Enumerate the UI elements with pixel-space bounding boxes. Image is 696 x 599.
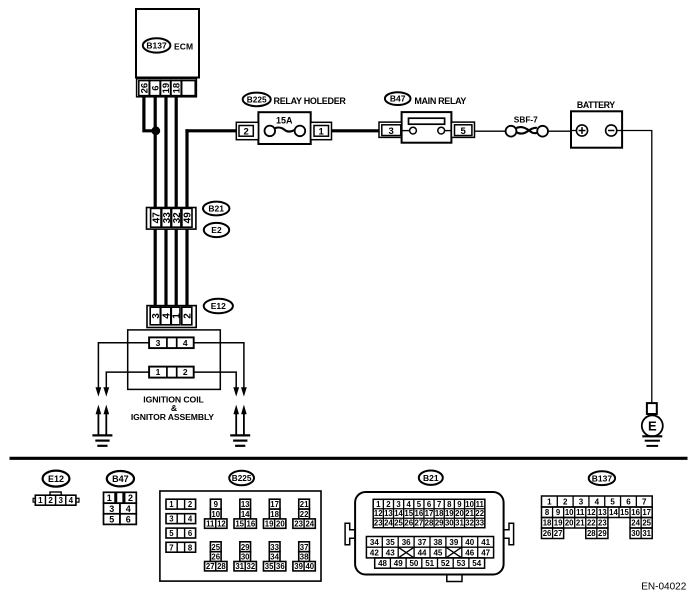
- svg-text:15A: 15A: [276, 115, 293, 125]
- svg-text:6: 6: [150, 85, 161, 90]
- B21 pins 34-47 grid: [366, 537, 493, 558]
- svg-text:E2: E2: [211, 225, 222, 235]
- svg-text:32: 32: [247, 562, 256, 571]
- pin 19: [161, 81, 171, 96]
- svg-text:6: 6: [626, 497, 631, 506]
- svg-text:25: 25: [642, 519, 651, 528]
- label B21: [203, 202, 229, 216]
- footer B21 right tab: [504, 523, 514, 545]
- svg-text:26: 26: [404, 519, 413, 528]
- svg-text:1: 1: [107, 493, 112, 503]
- svg-text:26: 26: [139, 83, 150, 94]
- svg-text:20: 20: [565, 519, 574, 528]
- B225 pins 37-40: [299, 542, 310, 552]
- B225 pins 17-20: [269, 499, 280, 509]
- fuse circle left: [265, 126, 276, 137]
- svg-text:42: 42: [370, 549, 379, 558]
- footer B21 left tab: [345, 523, 355, 545]
- relay contact right: [445, 130, 452, 132]
- svg-text:9: 9: [214, 500, 219, 509]
- svg-text:27: 27: [554, 529, 563, 538]
- B225 pins 13-16: [240, 499, 251, 509]
- svg-text:B21: B21: [423, 473, 439, 483]
- svg-text:3: 3: [396, 500, 401, 509]
- svg-text:6: 6: [126, 515, 131, 525]
- pin 1 of relay holeder: [311, 122, 332, 139]
- svg-text:2: 2: [182, 313, 193, 319]
- svg-text:2: 2: [188, 500, 193, 509]
- svg-text:44: 44: [418, 549, 427, 558]
- wire relay holeder pin1 to main relay pin3: [332, 129, 382, 132]
- svg-text:27: 27: [415, 519, 424, 528]
- svg-text:E12: E12: [48, 474, 64, 484]
- footer label B225: [229, 471, 254, 486]
- svg-text:16: 16: [247, 520, 256, 529]
- empty pin cell: [182, 81, 196, 96]
- footer label B21: [419, 471, 443, 485]
- svg-text:3: 3: [389, 126, 394, 137]
- connector square above E: [647, 403, 657, 414]
- wire coil pin1 to shield left: [106, 372, 149, 388]
- svg-text:49: 49: [183, 212, 194, 224]
- svg-text:23: 23: [294, 520, 303, 529]
- pin 5 of main relay: [451, 122, 474, 137]
- svg-text:30: 30: [241, 553, 250, 562]
- B137 pins 26-31 row: [542, 528, 564, 539]
- wire SBF-7 to battery: [548, 130, 571, 132]
- svg-text:16: 16: [631, 508, 640, 517]
- footer label E12: [43, 471, 70, 487]
- wire battery to ground E: [622, 131, 652, 404]
- pin 32: [172, 208, 181, 227]
- connector label B137: [143, 38, 171, 52]
- pin 26: [139, 81, 149, 96]
- svg-text:2: 2: [386, 500, 391, 509]
- svg-text:9: 9: [457, 500, 462, 509]
- relay holeder fuse box: [258, 112, 310, 144]
- svg-text:ECM: ECM: [174, 42, 193, 52]
- svg-text:1: 1: [169, 500, 174, 509]
- wire into plus terminal: [571, 130, 576, 132]
- wire ECM pin 26 to junction: [144, 97, 155, 131]
- svg-text:37: 37: [418, 538, 427, 547]
- arrow down D: [241, 387, 247, 396]
- arrow down C: [233, 387, 239, 396]
- wire out of minus terminal: [617, 130, 622, 132]
- svg-text:17: 17: [270, 500, 279, 509]
- svg-text:17: 17: [642, 508, 651, 517]
- svg-text:6: 6: [188, 529, 193, 538]
- svg-text:19: 19: [445, 509, 454, 518]
- svg-text:28: 28: [217, 562, 226, 571]
- svg-text:8: 8: [188, 543, 193, 552]
- svg-text:5: 5: [610, 497, 615, 506]
- pin 1: [171, 307, 180, 325]
- wire ECM pin 6 down to E12 pin 3: [154, 97, 157, 308]
- footer E12 connector: [50, 492, 61, 495]
- svg-text:21: 21: [465, 509, 474, 518]
- svg-text:40: 40: [305, 562, 314, 571]
- svg-text:14: 14: [609, 508, 618, 517]
- svg-text:35: 35: [265, 562, 274, 571]
- svg-text:SBF-7: SBF-7: [514, 115, 538, 125]
- svg-text:13: 13: [384, 509, 393, 518]
- svg-text:10: 10: [565, 508, 574, 517]
- svg-text:47: 47: [151, 212, 162, 224]
- separator line: [10, 457, 688, 460]
- relay coil bar: [409, 118, 445, 124]
- svg-text:49: 49: [394, 559, 403, 568]
- footer B21 housing: [355, 492, 504, 575]
- svg-text:4: 4: [407, 500, 412, 509]
- svg-text:16: 16: [415, 509, 424, 518]
- svg-text:39: 39: [294, 562, 303, 571]
- B21 pins 1-33 grid: [373, 499, 485, 527]
- B225 pins 3 4: [166, 514, 196, 524]
- pin 2 of relay holeder: [236, 122, 258, 139]
- svg-text:21: 21: [576, 519, 585, 528]
- svg-text:25: 25: [394, 519, 403, 528]
- svg-text:B47: B47: [112, 474, 129, 484]
- svg-text:35: 35: [386, 538, 395, 547]
- shield up arrows left: [97, 414, 99, 435]
- wire main relay pin5 to SBF-7: [475, 130, 506, 132]
- svg-text:18: 18: [435, 509, 444, 518]
- ECM connector row: [137, 79, 197, 97]
- svg-text:53: 53: [457, 559, 466, 568]
- svg-text:27: 27: [206, 562, 215, 571]
- svg-text:4: 4: [188, 515, 193, 524]
- battery minus terminal: [606, 125, 617, 136]
- svg-text:54: 54: [472, 559, 481, 568]
- svg-text:28: 28: [425, 519, 434, 528]
- B137 pins 8-17 row: [542, 507, 653, 518]
- svg-text:4: 4: [69, 496, 74, 505]
- svg-text:33: 33: [270, 543, 279, 552]
- svg-text:20: 20: [455, 509, 464, 518]
- svg-text:11: 11: [206, 520, 215, 529]
- pin 33: [162, 208, 171, 227]
- B225 pins 25-28: [210, 542, 221, 552]
- svg-text:B21: B21: [208, 204, 224, 214]
- svg-text:4: 4: [183, 338, 188, 348]
- junction dot: [151, 126, 160, 135]
- connector E12 row: [147, 306, 196, 328]
- svg-text:40: 40: [465, 538, 474, 547]
- svg-text:1: 1: [319, 126, 325, 137]
- shield up arrows right: [235, 414, 237, 435]
- SBF-7 circle left: [506, 126, 517, 137]
- svg-text:14: 14: [241, 510, 250, 519]
- svg-text:15: 15: [235, 520, 244, 529]
- svg-text:1: 1: [547, 497, 552, 506]
- svg-text:1: 1: [156, 367, 161, 377]
- svg-text:26: 26: [211, 553, 220, 562]
- svg-text:7: 7: [437, 500, 441, 509]
- svg-text:29: 29: [241, 543, 250, 552]
- svg-text:10: 10: [211, 510, 220, 519]
- coil connector 3 4: [149, 337, 194, 348]
- svg-text:7: 7: [642, 497, 647, 506]
- svg-text:36: 36: [402, 538, 411, 547]
- svg-text:22: 22: [475, 509, 484, 518]
- svg-text:B137: B137: [592, 473, 613, 483]
- svg-text:52: 52: [441, 559, 450, 568]
- svg-text:3: 3: [579, 497, 584, 506]
- main relay box: [402, 112, 452, 143]
- svg-text:3: 3: [109, 504, 114, 514]
- svg-text:8: 8: [447, 500, 452, 509]
- svg-text:18: 18: [543, 519, 552, 528]
- B225 pins 33-36: [269, 542, 280, 552]
- svg-text:6: 6: [427, 500, 432, 509]
- SBF-7 circle right: [537, 126, 548, 137]
- label B47: [385, 92, 411, 105]
- svg-text:32: 32: [465, 519, 474, 528]
- svg-text:IGNITOR ASSEMBLY: IGNITOR ASSEMBLY: [131, 412, 214, 422]
- B225 pins 5 6: [166, 528, 196, 538]
- svg-text:17: 17: [425, 509, 434, 518]
- svg-text:5: 5: [461, 126, 467, 137]
- fuse wavy link: [275, 127, 295, 131]
- svg-text:24: 24: [305, 520, 314, 529]
- svg-text:38: 38: [300, 553, 309, 562]
- svg-text:30: 30: [445, 519, 454, 528]
- svg-text:BATTERY: BATTERY: [577, 100, 615, 110]
- arrow down B: [103, 387, 109, 396]
- B21 pins 48-54 row: [375, 558, 485, 568]
- footer B21 bottom tab: [447, 574, 462, 581]
- svg-text:9: 9: [556, 508, 561, 517]
- B225 pins 29-32: [240, 542, 251, 552]
- fuse circle right: [295, 126, 306, 137]
- pin 2: [182, 307, 192, 325]
- svg-text:B225: B225: [247, 94, 267, 104]
- svg-text:36: 36: [276, 562, 285, 571]
- svg-text:12: 12: [374, 509, 383, 518]
- svg-text:18: 18: [172, 83, 183, 94]
- svg-text:26: 26: [543, 529, 552, 538]
- svg-text:33: 33: [475, 519, 484, 528]
- pin 18: [171, 81, 181, 96]
- svg-text:28: 28: [587, 529, 596, 538]
- svg-text:15: 15: [620, 508, 629, 517]
- ignition coil box: [128, 330, 221, 390]
- footer B225 housing: [160, 491, 321, 581]
- ground symbol right: [230, 434, 250, 436]
- B225 pins 1 2: [166, 499, 196, 509]
- B225 pins 21-24: [299, 499, 310, 509]
- svg-text:22: 22: [300, 510, 309, 519]
- svg-text:1: 1: [38, 496, 43, 505]
- svg-text:48: 48: [378, 559, 387, 568]
- svg-text:18: 18: [270, 510, 279, 519]
- svg-text:B225: B225: [232, 474, 252, 483]
- svg-text:2: 2: [183, 367, 188, 377]
- svg-text:19: 19: [265, 520, 274, 529]
- wire B21 pin 49 up to relay branch: [185, 129, 188, 307]
- coil connector 1 2: [149, 367, 194, 378]
- arrow down A: [96, 387, 102, 396]
- pin 3: [150, 307, 160, 325]
- svg-text:31: 31: [642, 529, 651, 538]
- SBF-7 wavy link: [516, 127, 537, 133]
- svg-text:31: 31: [235, 562, 244, 571]
- pin 6: [150, 81, 160, 96]
- label E2: [204, 223, 229, 237]
- svg-text:2: 2: [48, 496, 53, 505]
- svg-text:RELAY HOLEDER: RELAY HOLEDER: [274, 96, 347, 106]
- svg-text:31: 31: [455, 519, 464, 528]
- svg-text:21: 21: [300, 500, 309, 509]
- svg-text:13: 13: [241, 500, 250, 509]
- svg-text:11: 11: [576, 508, 585, 517]
- wire coil pin3 to shield left: [98, 343, 149, 388]
- svg-text:11: 11: [476, 500, 485, 509]
- svg-text:29: 29: [435, 519, 444, 528]
- pin 49: [182, 208, 192, 227]
- svg-text:41: 41: [481, 538, 490, 547]
- svg-text:5: 5: [417, 500, 422, 509]
- svg-text:30: 30: [631, 529, 640, 538]
- svg-text:45: 45: [433, 549, 442, 558]
- svg-text:22: 22: [587, 519, 596, 528]
- svg-text:E12: E12: [211, 301, 226, 311]
- svg-text:24: 24: [384, 519, 393, 528]
- svg-text:39: 39: [449, 538, 458, 547]
- svg-text:34: 34: [270, 553, 279, 562]
- svg-text:29: 29: [598, 529, 607, 538]
- battery box: [571, 111, 622, 147]
- relay contact left: [402, 130, 410, 132]
- svg-text:1: 1: [376, 500, 381, 509]
- svg-text:5: 5: [109, 515, 114, 525]
- battery plus terminal: [576, 125, 587, 136]
- wire to relay holeder pin 2: [185, 129, 237, 132]
- svg-text:13: 13: [598, 508, 607, 517]
- svg-text:2: 2: [128, 493, 133, 503]
- svg-text:14: 14: [394, 509, 403, 518]
- svg-text:3: 3: [58, 496, 63, 505]
- svg-text:2: 2: [563, 497, 568, 506]
- svg-text:43: 43: [386, 549, 395, 558]
- svg-text:23: 23: [598, 519, 607, 528]
- wire ECM pin 18 down to E12 pin 1: [175, 97, 178, 308]
- svg-text:8: 8: [545, 508, 550, 517]
- svg-text:10: 10: [465, 500, 474, 509]
- pin 47: [151, 208, 161, 227]
- svg-text:34: 34: [370, 538, 379, 547]
- svg-text:E: E: [648, 419, 657, 434]
- footer label B47: [107, 471, 134, 486]
- svg-text:5: 5: [169, 529, 174, 538]
- svg-text:12: 12: [587, 508, 596, 517]
- wire ECM pin 19 down to E12 pin 4: [164, 97, 167, 308]
- svg-text:1: 1: [171, 313, 182, 319]
- wire coil pin2 to shield right: [194, 372, 237, 388]
- svg-text:19: 19: [554, 519, 563, 528]
- svg-text:3: 3: [169, 515, 174, 524]
- svg-text:25: 25: [211, 543, 220, 552]
- svg-text:2: 2: [243, 126, 248, 137]
- B225 pins 7 8: [166, 542, 196, 552]
- wire coil pin4 to shield right: [194, 343, 244, 388]
- pin 4: [161, 307, 171, 325]
- svg-text:MAIN RELAY: MAIN RELAY: [414, 96, 466, 106]
- svg-text:7: 7: [169, 543, 173, 552]
- svg-text:51: 51: [425, 559, 434, 568]
- ground circle E: [642, 415, 663, 436]
- svg-text:37: 37: [300, 543, 309, 552]
- ECM box B137: [136, 9, 199, 78]
- pin 3 of main relay: [379, 122, 402, 137]
- svg-text:24: 24: [631, 519, 640, 528]
- connector B21/E2 row: [147, 208, 196, 230]
- svg-text:50: 50: [409, 559, 418, 568]
- svg-text:EN-04022: EN-04022: [641, 582, 686, 593]
- ground symbol left: [92, 434, 112, 436]
- svg-text:15: 15: [404, 509, 413, 518]
- B137 pins 1-7 row: [542, 496, 653, 507]
- svg-text:4: 4: [126, 504, 131, 514]
- svg-text:46: 46: [465, 549, 474, 558]
- svg-text:3: 3: [156, 338, 161, 348]
- footer B47 connector: [104, 492, 116, 503]
- svg-text:4: 4: [595, 497, 600, 506]
- footer label B137: [589, 471, 615, 485]
- svg-text:38: 38: [433, 538, 442, 547]
- ground symbol E: [642, 435, 662, 437]
- svg-text:B47: B47: [390, 94, 406, 104]
- svg-text:12: 12: [217, 520, 226, 529]
- label E12: [204, 299, 233, 313]
- B137 pins 18-25 row: [542, 518, 608, 529]
- svg-text:23: 23: [374, 519, 383, 528]
- B225 pins 9-12: [210, 499, 221, 509]
- label B225: [243, 93, 271, 107]
- svg-text:47: 47: [481, 549, 490, 558]
- svg-text:20: 20: [276, 520, 285, 529]
- svg-text:B137: B137: [146, 40, 167, 50]
